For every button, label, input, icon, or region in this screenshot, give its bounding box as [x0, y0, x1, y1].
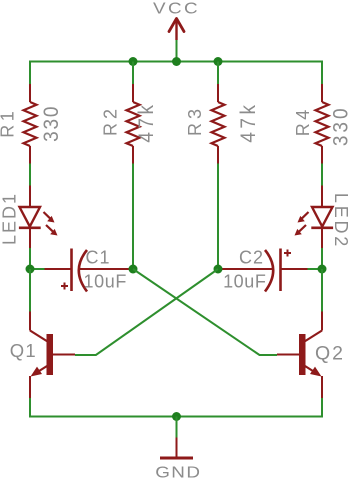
svg-text:LED1: LED1: [0, 192, 19, 245]
svg-text:VCC: VCC: [153, 0, 200, 17]
wire top rail: [30, 62, 322, 85]
svg-text:C1: C1: [86, 248, 111, 268]
capacitor C2: [218, 249, 308, 292]
svg-text:LED2: LED2: [331, 193, 351, 249]
junction dot top rail R2: [129, 57, 138, 66]
resistor R1: [24, 84, 37, 164]
svg-text:C2: C2: [239, 248, 264, 268]
wire node D down to Q2 collector: [321, 269, 323, 312]
svg-text:330: 330: [40, 105, 63, 142]
svg-text:Q2: Q2: [315, 343, 345, 365]
wire R3 to node C: [217, 164, 219, 270]
wire LED1 to node A: [29, 248, 31, 269]
svg-text:Q1: Q1: [10, 340, 37, 361]
resistor R4: [316, 84, 329, 164]
junction dot top rail R3: [214, 57, 223, 66]
svg-text:47k: 47k: [237, 102, 260, 143]
svg-text:R2: R2: [100, 105, 120, 136]
wire node A down to Q1 collector: [29, 269, 31, 312]
svg-text:R4: R4: [293, 106, 313, 136]
resistor R3: [212, 62, 225, 164]
resistor R2: [127, 62, 140, 164]
junction dot GND: [172, 412, 181, 421]
junction dot node C (R3/C2): [214, 265, 223, 274]
junction dot top rail VCC: [172, 57, 181, 66]
svg-text:10uF: 10uF: [223, 272, 266, 292]
power symbol VCC: [153, 0, 200, 40]
emission arrows: [44, 212, 51, 218]
wire R2 to node B: [132, 164, 134, 270]
wire R4 to LED2: [321, 164, 323, 186]
plus sign C1: [61, 285, 68, 287]
LED LED1: [19, 186, 58, 249]
transistor Q1: [30, 312, 75, 399]
svg-text:R1: R1: [0, 108, 18, 138]
LED LED2: [295, 186, 334, 249]
wire GND stem: [176, 417, 178, 438]
wire C2 to node D: [308, 268, 323, 270]
svg-text:330: 330: [330, 105, 352, 146]
transistor Q2: [277, 312, 322, 399]
wire node A to C1: [30, 268, 45, 270]
svg-text:10uF: 10uF: [84, 272, 127, 292]
wire Q1 emitter to bottom rail: [29, 398, 31, 417]
wire node B to Q2 base (cross): [133, 269, 277, 355]
wire Q2 emitter to bottom rail: [321, 398, 323, 417]
wire node C to Q1 base (cross): [75, 269, 218, 355]
capacitor C1: [45, 249, 134, 292]
svg-text:47k: 47k: [135, 102, 158, 143]
emission arrows: [302, 212, 309, 218]
wire LED2 to node D: [321, 248, 323, 269]
junction dot node B (R2/C1): [129, 265, 138, 274]
ground symbol GND: [155, 438, 201, 480]
wire bottom rail: [30, 398, 322, 417]
svg-text:GND: GND: [155, 463, 201, 480]
wire VCC stem: [176, 40, 178, 62]
svg-text:R3: R3: [185, 105, 205, 136]
plus sign C2: [284, 252, 291, 254]
junction dot node D (LED2/C2): [318, 265, 327, 274]
junction dot node A (LED1/C1): [26, 265, 35, 274]
wire R1 to LED1: [29, 164, 31, 186]
